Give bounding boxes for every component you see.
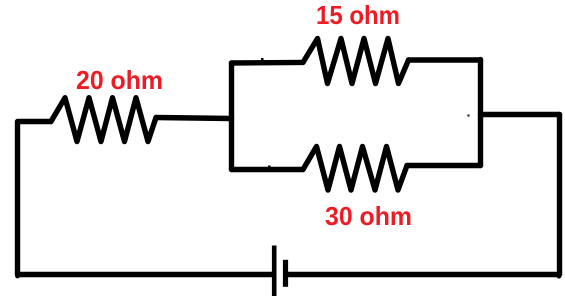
- resistor R3 30 ohm zigzag: [303, 147, 407, 191]
- battery B1 short plate: [283, 260, 288, 287]
- wire parallel-box left vertical: [229, 63, 234, 170]
- wire tick on top branch: [261, 58, 264, 61]
- wire top branch right: [409, 57, 481, 62]
- wire bottom branch right: [407, 163, 481, 168]
- wire bottom right run from battery to right corner: [286, 272, 560, 277]
- svg-text:20 ohm: 20 ohm: [76, 65, 163, 95]
- wire parallel-box right vertical: [478, 60, 483, 166]
- wire from R1 to parallel box: [156, 118, 232, 119]
- node stray dot: [467, 114, 470, 117]
- wire tick on bottom branch: [268, 166, 271, 169]
- wire top branch left: [232, 60, 304, 66]
- wire right outer vertical: [557, 115, 562, 275]
- wire output middle right: [481, 112, 560, 117]
- resistor R1 20 ohm zigzag: [51, 98, 156, 142]
- svg-text:30 ohm: 30 ohm: [325, 201, 412, 231]
- wire left loop (top-left horizontal, left vertical, bottom-left run to battery): [18, 122, 273, 275]
- svg-text:15 ohm: 15 ohm: [316, 0, 400, 30]
- wire corner blob bottom-left: [15, 274, 20, 279]
- wire corner blob bottom-right: [557, 274, 562, 279]
- battery B1 long plate: [272, 246, 277, 296]
- wire bottom branch left: [232, 167, 304, 172]
- resistor R2 15 ohm zigzag: [303, 39, 409, 84]
